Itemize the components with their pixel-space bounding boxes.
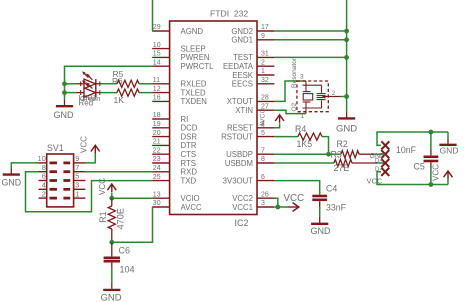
junction R1 bottom xyxy=(109,240,114,245)
wire XTOUT to resonator pin 3 xyxy=(274,81,306,101)
IC2 pin 21 DTR xyxy=(152,139,197,151)
svg-text:23: 23 xyxy=(153,156,161,163)
junction GND2/bus xyxy=(344,29,349,34)
svg-text:33nF: 33nF xyxy=(326,203,347,213)
svg-text:XTOUT: XTOUT xyxy=(227,97,254,106)
svg-text:RXD: RXD xyxy=(181,168,198,177)
svg-text:1K5: 1K5 xyxy=(297,139,313,149)
junction RXLED line xyxy=(62,81,67,86)
IC2 pin 18 RI xyxy=(152,112,188,124)
resistor R1 xyxy=(98,198,125,242)
IC2 pin 8 USBDM xyxy=(225,156,275,168)
wire RSTOUT to R4 xyxy=(274,136,298,138)
svg-text:USBDP: USBDP xyxy=(226,150,253,159)
IC2 pin 28 XTOUT xyxy=(227,95,275,107)
svg-text:6: 6 xyxy=(261,174,265,181)
svg-text:C4: C4 xyxy=(326,183,337,193)
USB pin name GND xyxy=(370,153,386,160)
SV1 pin 8 xyxy=(39,163,58,172)
svg-text:VCC1: VCC1 xyxy=(232,203,253,212)
VCC label at IC supply xyxy=(284,193,305,204)
IC2 pin 1 EESK xyxy=(232,68,274,80)
svg-text:3: 3 xyxy=(300,74,304,81)
IC2 pin 27 XTIN xyxy=(235,103,274,115)
svg-text:Red: Red xyxy=(79,99,94,108)
svg-text:GND: GND xyxy=(101,292,122,302)
resistor R4 xyxy=(295,124,322,149)
svg-text:9: 9 xyxy=(75,154,79,163)
ground symbol left of SV1 xyxy=(2,169,22,188)
supply VCC arrow (right-pointing) xyxy=(288,203,299,212)
svg-text:PWRCTL: PWRCTL xyxy=(181,62,215,71)
svg-text:4: 4 xyxy=(42,181,46,190)
svg-text:28: 28 xyxy=(261,95,269,102)
svg-text:1: 1 xyxy=(261,68,265,75)
IC2 pin 31 TEST xyxy=(233,51,274,63)
IC2 pin 9 GND1 xyxy=(231,33,274,45)
capacitor C6 xyxy=(104,242,135,288)
svg-text:30: 30 xyxy=(153,200,161,207)
svg-text:AVCC: AVCC xyxy=(260,109,267,127)
SV1 pin 10 xyxy=(38,154,57,163)
svg-text:2: 2 xyxy=(42,189,46,198)
Q2 pin 3 number xyxy=(300,74,304,81)
svg-text:RESET: RESET xyxy=(227,124,253,133)
svg-text:5: 5 xyxy=(261,130,265,137)
wire TXLED row xyxy=(65,92,153,94)
svg-text:3: 3 xyxy=(75,181,79,190)
svg-text:VCC: VCC xyxy=(284,193,305,204)
resonator Q2 xyxy=(297,81,341,114)
svg-text:FTDI 232: FTDI 232 xyxy=(210,9,248,19)
wire USBDM to R3 xyxy=(274,162,334,164)
IC2 pin 13 VCIO xyxy=(152,191,199,203)
IC2 pin 6 3V3OUT xyxy=(223,174,275,186)
junction C5 bottom xyxy=(429,182,434,187)
IC2 pin 10 SLEEP xyxy=(152,42,205,54)
svg-text:7: 7 xyxy=(261,147,265,154)
USB pin name D+ xyxy=(375,159,383,165)
svg-text:Resonator: Resonator xyxy=(291,57,298,88)
SV1 pin 1 xyxy=(63,189,85,198)
SV1 pin 3 xyxy=(63,181,85,190)
svg-text:GND1: GND1 xyxy=(231,36,253,45)
IC2 pin 16 TXDEN xyxy=(152,95,207,107)
IC2 pin 26 VCC2 xyxy=(232,191,274,203)
junction C5 top xyxy=(429,130,434,135)
svg-text:18: 18 xyxy=(153,112,161,119)
wire PWRCTL down-left xyxy=(65,66,153,99)
USB pin name D- xyxy=(375,167,381,173)
svg-text:EECS: EECS xyxy=(232,80,253,89)
SV1 pin 5 xyxy=(63,172,85,181)
junction TEST/bus xyxy=(344,55,349,60)
supply VCC arrow above SV1 xyxy=(91,145,100,153)
connector SV1 body xyxy=(47,154,74,207)
svg-text:13: 13 xyxy=(153,191,161,198)
svg-text:Q2: Q2 xyxy=(291,102,298,111)
svg-text:DCD: DCD xyxy=(181,124,198,133)
svg-text:GND: GND xyxy=(440,146,459,156)
IC2 pin 17 GND2 xyxy=(231,24,274,36)
svg-text:27E: 27E xyxy=(334,163,350,173)
wire R4 to USBDP net xyxy=(322,137,329,155)
svg-text:TXD: TXD xyxy=(181,176,197,185)
supply VCC arrow above R1 xyxy=(107,184,116,192)
svg-text:XTIN: XTIN xyxy=(235,106,253,115)
VCC label above SV1 xyxy=(80,136,89,153)
ground symbol below C6 xyxy=(101,288,122,302)
svg-text:VCC: VCC xyxy=(80,136,89,153)
svg-text:C5: C5 xyxy=(414,162,425,172)
IC2 pin 5 RSTOUT xyxy=(221,130,274,142)
svg-text:10nF: 10nF xyxy=(396,145,417,155)
wire resonator pin 2 to GND bus xyxy=(341,96,347,98)
wire R1 bottom to AVCC pin xyxy=(112,207,153,242)
C5 VCC net label xyxy=(431,164,440,181)
wire SV1 pin10 to GND xyxy=(11,163,38,169)
Q2 pin 1 number xyxy=(301,113,305,120)
svg-text:32: 32 xyxy=(261,77,269,84)
SV1 pin 9 xyxy=(63,154,85,163)
IC2 pin 3 VCC1 xyxy=(232,200,274,212)
wire RXLED row xyxy=(65,83,153,85)
junction R4/USBDP xyxy=(326,152,331,157)
wire XTIN to resonator pin 1 xyxy=(274,110,306,113)
IC IC2 FTDI232 body xyxy=(170,21,257,215)
svg-text:VCC: VCC xyxy=(431,164,440,181)
ground symbol below LED column xyxy=(54,99,75,120)
IC2 pin 29 AGND xyxy=(152,24,203,36)
SV1 pin 2 xyxy=(39,189,58,198)
capacitor C5 xyxy=(396,132,438,185)
svg-text:21: 21 xyxy=(153,139,161,146)
IC2 pin 14 PWRCTL xyxy=(152,59,214,71)
svg-text:R3: R3 xyxy=(331,150,342,160)
SV1 pin 6 xyxy=(39,172,58,181)
resistor R6 xyxy=(114,89,140,105)
svg-text:TEST: TEST xyxy=(233,53,253,62)
IC2 pin 19 DCD xyxy=(152,121,198,133)
svg-text:RI: RI xyxy=(181,115,189,124)
supply VCC arrow right side xyxy=(444,171,453,185)
svg-text:R1: R1 xyxy=(98,211,108,223)
svg-text:10: 10 xyxy=(38,154,46,163)
IC2 pin 25 TXD xyxy=(152,174,196,186)
wire TEST to GND bus xyxy=(274,56,346,58)
svg-text:24: 24 xyxy=(153,165,161,172)
VCC label above R1 xyxy=(98,178,107,195)
svg-text:22: 22 xyxy=(153,147,161,154)
wire SV1 pin7 to RXD xyxy=(85,171,152,173)
USB pin name VCC xyxy=(367,176,383,185)
wire GND1 to GND bus xyxy=(274,39,346,41)
wire GND bus vertical xyxy=(346,0,348,113)
svg-text:VCC2: VCC2 xyxy=(232,194,253,203)
svg-text:29: 29 xyxy=(153,24,161,31)
svg-text:3V3OUT: 3V3OUT xyxy=(223,176,254,185)
svg-text:AGND: AGND xyxy=(181,27,204,36)
svg-text:104: 104 xyxy=(120,265,135,275)
wire GND2 to GND bus xyxy=(274,30,346,32)
IC2 pin 30 AVCC xyxy=(152,200,202,212)
svg-text:2: 2 xyxy=(332,90,336,97)
svg-text:17: 17 xyxy=(261,24,269,31)
svg-text:SV1: SV1 xyxy=(47,143,64,153)
svg-text:R5: R5 xyxy=(113,69,124,79)
wire USBDP to R2 xyxy=(274,153,341,155)
IC2 designator label xyxy=(235,218,249,228)
junction resonator/GND bus xyxy=(344,94,349,99)
wire SV1 pin9 to VCC xyxy=(85,153,95,163)
ground symbol below C4 xyxy=(311,223,332,237)
svg-text:8: 8 xyxy=(42,163,46,172)
svg-text:D+: D+ xyxy=(375,159,383,165)
svg-text:2: 2 xyxy=(261,59,265,66)
LED2 labels xyxy=(79,99,94,108)
svg-text:1: 1 xyxy=(75,189,79,198)
wire R2 to USB D+ xyxy=(374,153,385,155)
svg-text:8: 8 xyxy=(261,156,265,163)
IC2 pin 22 CTS xyxy=(152,147,196,159)
wire VCC2 jog xyxy=(274,198,277,207)
svg-text:3: 3 xyxy=(261,200,265,207)
LED2 red xyxy=(77,80,101,97)
svg-text:11: 11 xyxy=(153,77,160,84)
IC2 pin 11 RXLED xyxy=(152,77,207,89)
svg-text:EESK: EESK xyxy=(232,71,254,80)
svg-text:GND: GND xyxy=(336,124,357,135)
IC2 pin 23 RTS xyxy=(152,156,196,168)
wire RESET to AVCC supply xyxy=(274,123,279,128)
IC2 pin 4 RESET xyxy=(227,121,274,133)
svg-text:1K: 1K xyxy=(114,95,125,105)
svg-text:10: 10 xyxy=(153,42,161,49)
IC2 pin 7 USBDP xyxy=(226,147,274,159)
svg-text:TXLED: TXLED xyxy=(181,88,206,97)
svg-text:R2: R2 xyxy=(337,139,348,149)
resistor R5 xyxy=(112,69,139,87)
svg-text:IC2: IC2 xyxy=(235,218,249,228)
svg-text:EEDATA: EEDATA xyxy=(223,62,254,71)
Q2 label Resonator xyxy=(291,57,298,88)
wire VCC to VCIO xyxy=(112,193,152,199)
junction VCC1/VCC2 xyxy=(275,205,280,210)
svg-text:6: 6 xyxy=(42,172,46,181)
svg-text:16: 16 xyxy=(153,95,161,102)
AVCC label xyxy=(260,109,267,127)
SV1 designator xyxy=(47,143,64,153)
IC2 pin 24 RXD xyxy=(152,165,197,177)
svg-text:5: 5 xyxy=(75,172,79,181)
USB connector pin D+ (X mark) xyxy=(381,150,389,158)
svg-text:20: 20 xyxy=(153,130,161,137)
svg-text:GND: GND xyxy=(2,178,22,188)
IC2 pin 32 EECS xyxy=(232,77,275,89)
svg-text:CTS: CTS xyxy=(181,150,197,159)
wire 3V3OUT to C4 xyxy=(274,181,319,195)
LED1 labels xyxy=(79,93,101,103)
svg-text:RTS: RTS xyxy=(181,159,196,168)
svg-text:7: 7 xyxy=(75,163,79,172)
supply AVCC arrow xyxy=(275,115,284,123)
SV1 pin 7 xyxy=(63,163,85,172)
wire TXD loop to SV1 pin8 xyxy=(26,172,153,212)
wire VCC1 to arrow xyxy=(274,206,288,208)
ground symbol top right xyxy=(439,132,458,156)
svg-text:12: 12 xyxy=(153,86,161,93)
wire AGND net to top edge xyxy=(151,0,153,31)
wire USB VCC pin to bottom rail xyxy=(377,172,448,185)
junction R1 top xyxy=(109,196,114,201)
svg-text:15: 15 xyxy=(153,51,161,58)
svg-text:DSR: DSR xyxy=(181,132,198,141)
wire R3 to USB D- xyxy=(377,162,385,164)
USB connector pin D- (X mark) xyxy=(381,159,389,167)
svg-text:GND2: GND2 xyxy=(231,27,253,36)
IC2 pin 15 PWREN xyxy=(152,51,209,63)
svg-text:RSTOUT: RSTOUT xyxy=(221,132,253,141)
IC2 pin 20 DSR xyxy=(152,130,197,142)
svg-text:31: 31 xyxy=(261,51,269,58)
USB connector pin GND (X mark) xyxy=(381,141,389,149)
USB connector pin VCC (X mark) xyxy=(381,168,389,176)
svg-text:GND: GND xyxy=(311,226,332,236)
resistor R3 xyxy=(331,150,378,174)
junction GND1/bus xyxy=(344,37,349,42)
Q2 pin 2 number xyxy=(332,90,336,97)
LED1 green xyxy=(77,71,101,88)
svg-text:AVCC: AVCC xyxy=(181,203,202,212)
svg-text:9: 9 xyxy=(261,33,265,40)
svg-text:VCIO: VCIO xyxy=(181,194,200,203)
svg-text:RXLED: RXLED xyxy=(181,80,207,89)
capacitor C4 xyxy=(312,183,346,222)
svg-text:R4: R4 xyxy=(295,124,306,134)
svg-text:TXDEN: TXDEN xyxy=(181,97,207,106)
svg-text:PWREN: PWREN xyxy=(181,53,210,62)
svg-text:DTR: DTR xyxy=(181,141,197,150)
svg-text:VCC: VCC xyxy=(98,178,107,195)
IC2 title FTDI 232 xyxy=(210,9,248,19)
resistor R2 xyxy=(337,139,375,158)
svg-text:GND: GND xyxy=(54,110,75,120)
Q2 designator xyxy=(291,102,298,111)
svg-text:1: 1 xyxy=(301,113,305,120)
svg-text:14: 14 xyxy=(153,59,161,66)
IC2 pin 2 EEDATA xyxy=(223,59,274,71)
ground symbol below GND bus xyxy=(336,113,357,135)
svg-text:26: 26 xyxy=(261,191,269,198)
svg-text:470E: 470E xyxy=(116,208,126,229)
svg-text:19: 19 xyxy=(153,121,161,128)
IC2 pin 12 TXLED xyxy=(152,86,206,98)
wire USB GND pin to top rail xyxy=(377,132,448,145)
SV1 pin 4 xyxy=(39,181,58,190)
svg-text:C6: C6 xyxy=(119,245,131,255)
svg-text:25: 25 xyxy=(153,174,161,181)
svg-text:SLEEP: SLEEP xyxy=(181,44,206,53)
junction TXLED line xyxy=(62,90,67,95)
svg-text:USBDM: USBDM xyxy=(225,159,253,168)
